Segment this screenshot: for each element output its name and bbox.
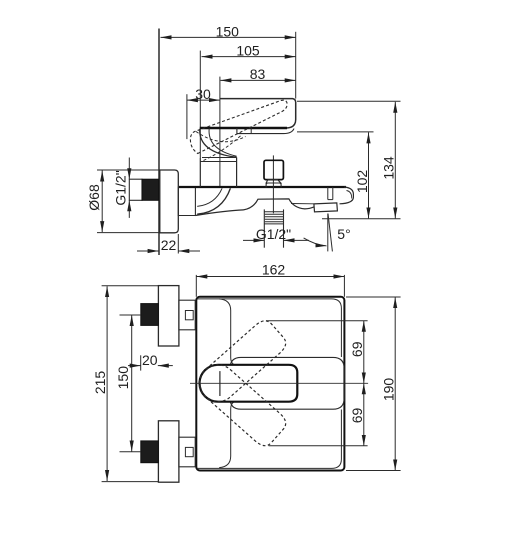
faucet body top edge (thick) (179, 186, 346, 188)
svg-text:Ø68: Ø68 (86, 184, 102, 211)
svg-text:69: 69 (349, 341, 365, 357)
dimension 30 (187, 86, 220, 102)
lever tick mark (219, 371, 221, 396)
svg-text:134: 134 (381, 156, 397, 180)
cartridge housing (thin rounded rect) (230, 357, 344, 409)
dimension 162 (196, 261, 344, 297)
dimension 134 (right) (381, 102, 397, 219)
body outline (plan view) (196, 297, 344, 471)
body inner line near lip (291, 203, 314, 205)
outlet collar + thread ridges (264, 211, 283, 213)
dimension G1/2 (left, wall nipple) (113, 158, 130, 218)
spout inner verticals (327, 187, 329, 200)
dimension 215 (92, 286, 158, 482)
lever handle (plan, solid stadium) (200, 365, 298, 402)
svg-text:30: 30 (195, 86, 211, 102)
svg-text:G1/2": G1/2" (256, 226, 291, 242)
diverter knob stem (266, 180, 281, 183)
spout nose (340, 187, 354, 204)
extension line x=295.7 (295, 32, 297, 99)
dimension 69 (upper) (266, 321, 368, 384)
svg-text:215: 215 (92, 371, 108, 395)
extension line x=186.9 (186, 94, 188, 139)
extension line x=200.3 (199, 51, 201, 158)
svg-text:83: 83 (250, 66, 266, 82)
handle blade bottom (thick) (200, 127, 287, 130)
body inner contour bottom/right (197, 410, 342, 469)
dimension 150 (top) (161, 23, 296, 39)
dimension 83 (220, 66, 295, 82)
inner corner branch (top) (219, 299, 234, 365)
diverter knob collar (266, 183, 281, 188)
bottom supply: escutcheon plate (158, 421, 179, 482)
top supply: escutcheon plate (158, 286, 179, 346)
handle under-step (237, 128, 294, 134)
wall line (158, 29, 160, 256)
lever handle rotated +41.5 (dashed) (192, 357, 290, 449)
svg-text:5°: 5° (337, 226, 350, 242)
extension line x=219.9 (219, 77, 221, 187)
svg-text:150: 150 (115, 366, 131, 390)
extension line y=101.3 (297, 100, 401, 102)
svg-text:20: 20 (142, 352, 158, 368)
escutcheon plate (side view) (160, 170, 179, 233)
dimension Ø68 (left) (86, 170, 159, 233)
shower outlet sides / G1/2 extension (263, 209, 265, 247)
dimension G1/2 (bottom outlet) (243, 226, 309, 242)
svg-text:G1/2": G1/2" (113, 170, 129, 205)
top supply: tab (179, 300, 195, 330)
cartridge dome arcs (200, 129, 237, 158)
body underside profile (195, 210, 243, 216)
wall nipple plain section (129, 179, 142, 200)
outlet dome (244, 199, 314, 210)
inner corner branch (bottom) (219, 402, 234, 468)
bottom supply: tab notch (185, 447, 193, 456)
dimension 105 (202, 43, 296, 59)
handle blade (solid, top+right) (220, 99, 296, 128)
dimension 22 (137, 234, 200, 254)
rotation guide arcs (dashed) (196, 132, 246, 142)
dimension 20 (128, 352, 173, 371)
spout lip (aerator) (314, 203, 338, 212)
diverter knob axis (272, 155, 274, 213)
top supply: tab notch (185, 311, 193, 320)
bottom supply axis (120, 451, 142, 453)
svg-text:69: 69 (349, 408, 365, 424)
top supply: nipple (black) (141, 304, 159, 326)
extension line y=218.7 (322, 218, 401, 220)
wall nipple thread (black) (142, 179, 159, 200)
dimension 102 (right) (354, 132, 370, 218)
top supply axis (120, 314, 142, 316)
elbow between plate and body (178, 187, 195, 216)
handle lever (raised, dashed) (190, 100, 287, 153)
spout nose inner line (347, 191, 352, 199)
dimension 150 (bottom view) (115, 315, 132, 452)
cartridge column (199, 158, 201, 187)
diverter knob cap (264, 160, 283, 179)
svg-text:105: 105 (236, 43, 260, 59)
svg-text:150: 150 (216, 23, 240, 39)
bottom supply: tab (179, 437, 195, 467)
extension line y=131.9 (297, 131, 374, 133)
dimension 5 degrees (304, 214, 351, 252)
internal pipe bend arcs (197, 188, 222, 206)
dimension 190 (346, 297, 401, 471)
svg-text:102: 102 (354, 170, 370, 194)
body inner contour top/right (197, 299, 342, 357)
svg-text:162: 162 (262, 261, 286, 277)
dimension 69 (lower) (269, 383, 368, 446)
bottom supply: nipple (black) (141, 441, 159, 463)
svg-text:190: 190 (381, 378, 397, 402)
svg-text:22: 22 (161, 237, 177, 253)
horizontal centerline (190, 382, 368, 384)
lever handle rotated -41.5 (dashed) (192, 317, 290, 409)
